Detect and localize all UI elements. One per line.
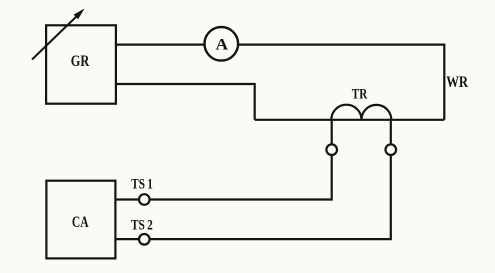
wire: TR left stub down to terminal [331,120,333,145]
wire: GR bottom output [116,84,255,120]
wire: TR right stub down to terminal [390,120,392,145]
ammeter A [205,27,239,61]
terminal circle (TR right) [386,144,397,155]
svg-text:WR: WR [446,74,468,91]
terminal circle (TR left) [326,144,337,155]
wire: CA to TS2 terminal [115,238,140,240]
svg-text:CA: CA [72,214,89,231]
wire: TR left terminal down and left to TS1 [150,155,332,200]
wire: bottom horizontal line to TR and right corner [255,119,445,121]
generator GR (box) [46,25,116,103]
arrow (adjustable symbol) on GR [32,9,85,60]
svg-text:GR: GR [71,53,90,70]
svg-text:TS 1: TS 1 [131,176,153,192]
wire: ammeter to top-right corner and down right side [238,45,444,120]
wire: CA to TS1 terminal [115,198,140,200]
box CA [46,181,115,259]
transformer TR winding (two humps) [331,105,391,120]
wire: TR right terminal down and left to TS2 [150,155,391,239]
svg-text:TR: TR [352,87,368,103]
svg-text:TS 2: TS 2 [131,218,153,234]
svg-text:A: A [216,36,229,53]
terminal circle TS2 [139,234,150,245]
wire: GR top output to ammeter [116,43,205,45]
terminal circle TS1 [139,194,150,205]
